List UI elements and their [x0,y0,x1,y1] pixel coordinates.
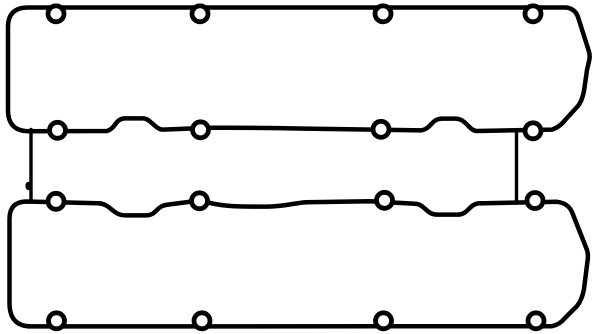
bolt hole M4 [525,123,541,139]
junction dot on left connector [25,182,31,190]
bolt hole N3 [377,192,393,208]
bolt hole N2 [192,193,208,209]
bolt hole M3 [373,121,389,137]
bolt hole B4 [528,313,544,329]
bolt hole B3 [376,313,392,329]
bolt hole B1 [49,313,65,329]
bolt hole M2 [193,122,209,138]
right connector line [515,131,518,203]
top gasket outline [8,8,590,132]
bottom gasket outline [10,201,588,326]
bolt hole T1 [48,6,64,22]
bolt hole B2 [194,313,210,329]
bolt hole N4 [527,193,543,209]
bolt hole N1 [48,193,64,209]
bolt hole T4 [525,6,541,22]
left connector line [29,130,32,202]
bolt hole T3 [375,6,391,22]
bolt hole T2 [192,6,208,22]
bolt hole M1 [50,122,66,138]
